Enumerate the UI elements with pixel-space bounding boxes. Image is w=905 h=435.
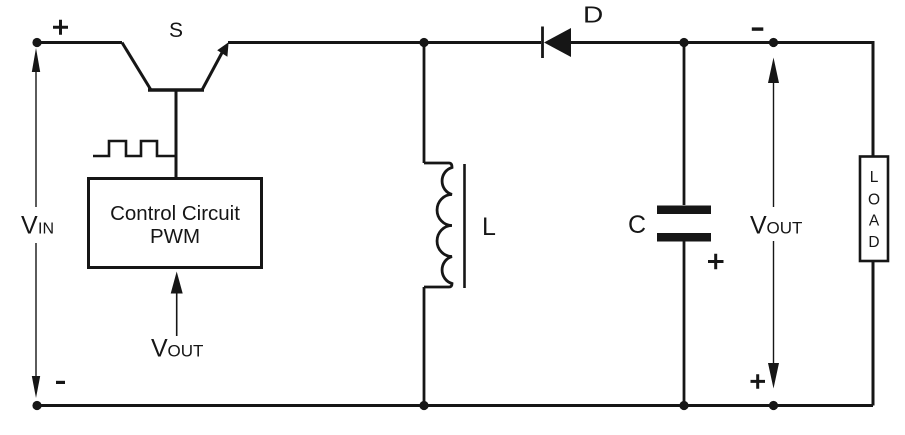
measure arrow Vin (double-headed) bbox=[32, 48, 40, 398]
label S bbox=[169, 19, 183, 42]
PWM square wave symbol bbox=[93, 141, 175, 156]
svg-text:S: S bbox=[169, 19, 183, 42]
wire capacitor bottom lead bbox=[683, 242, 686, 406]
svg-text:A: A bbox=[869, 213, 880, 230]
measure arrow Vout (double-headed) bbox=[768, 58, 779, 389]
node inductor bottom junction dot bbox=[419, 401, 428, 410]
label Vout (feedback) bbox=[151, 335, 203, 363]
svg-text:L: L bbox=[870, 169, 879, 186]
wire top rail middle segment bbox=[228, 41, 541, 44]
arrow feedback input into control box bbox=[171, 272, 183, 337]
node capacitor top junction dot bbox=[679, 38, 688, 47]
wire capacitor top lead bbox=[683, 43, 686, 206]
node Vout top junction dot bbox=[769, 38, 778, 47]
node inductor top junction dot bbox=[419, 38, 428, 47]
wire load bottom lead bbox=[872, 261, 875, 406]
control circuit box U1 bbox=[89, 179, 262, 268]
label + (input positive) bbox=[53, 20, 68, 35]
svg-text:Control Circuit: Control Circuit bbox=[110, 202, 240, 225]
wire inductor top lead bbox=[423, 43, 426, 164]
svg-text:V: V bbox=[750, 212, 767, 240]
node capacitor bottom junction dot bbox=[679, 401, 688, 410]
capacitor C (polarized plates) bbox=[657, 206, 711, 242]
node bottom-left junction dot bbox=[32, 401, 41, 410]
load box RL bbox=[860, 157, 888, 262]
label + (capacitor polarity) bbox=[708, 254, 724, 270]
wire bottom rail bbox=[37, 404, 873, 407]
svg-text:C: C bbox=[628, 211, 646, 239]
transistor S (switch) bbox=[122, 42, 229, 90]
wire inductor bottom lead bbox=[423, 287, 426, 406]
svg-text:OUT: OUT bbox=[767, 219, 803, 238]
svg-text:V: V bbox=[21, 212, 38, 240]
label Vin bbox=[21, 212, 54, 240]
label Vout (output) bbox=[750, 212, 802, 240]
node Vout bottom junction dot bbox=[769, 401, 778, 410]
label - (output negative) bbox=[752, 27, 764, 30]
wire top rail left segment bbox=[37, 41, 122, 44]
diode D bbox=[543, 27, 572, 59]
label + (output positive) bbox=[751, 374, 766, 389]
svg-text:D: D bbox=[583, 3, 603, 28]
svg-text:L: L bbox=[482, 213, 496, 241]
label C bbox=[628, 211, 646, 239]
wire top rail right segment bbox=[571, 41, 873, 44]
svg-text:OUT: OUT bbox=[168, 342, 204, 361]
svg-text:PWM: PWM bbox=[150, 225, 200, 248]
wire transistor base lead bbox=[175, 90, 178, 178]
svg-text:O: O bbox=[868, 192, 880, 209]
svg-text:IN: IN bbox=[38, 221, 54, 238]
label D bbox=[583, 3, 603, 28]
node input + terminal junction dot bbox=[32, 38, 41, 47]
wire load top lead bbox=[872, 43, 874, 157]
label L bbox=[482, 213, 496, 241]
svg-text:D: D bbox=[868, 234, 879, 251]
svg-text:V: V bbox=[151, 335, 168, 363]
inductor L coil bbox=[424, 163, 465, 288]
label - (input negative) bbox=[56, 381, 65, 384]
